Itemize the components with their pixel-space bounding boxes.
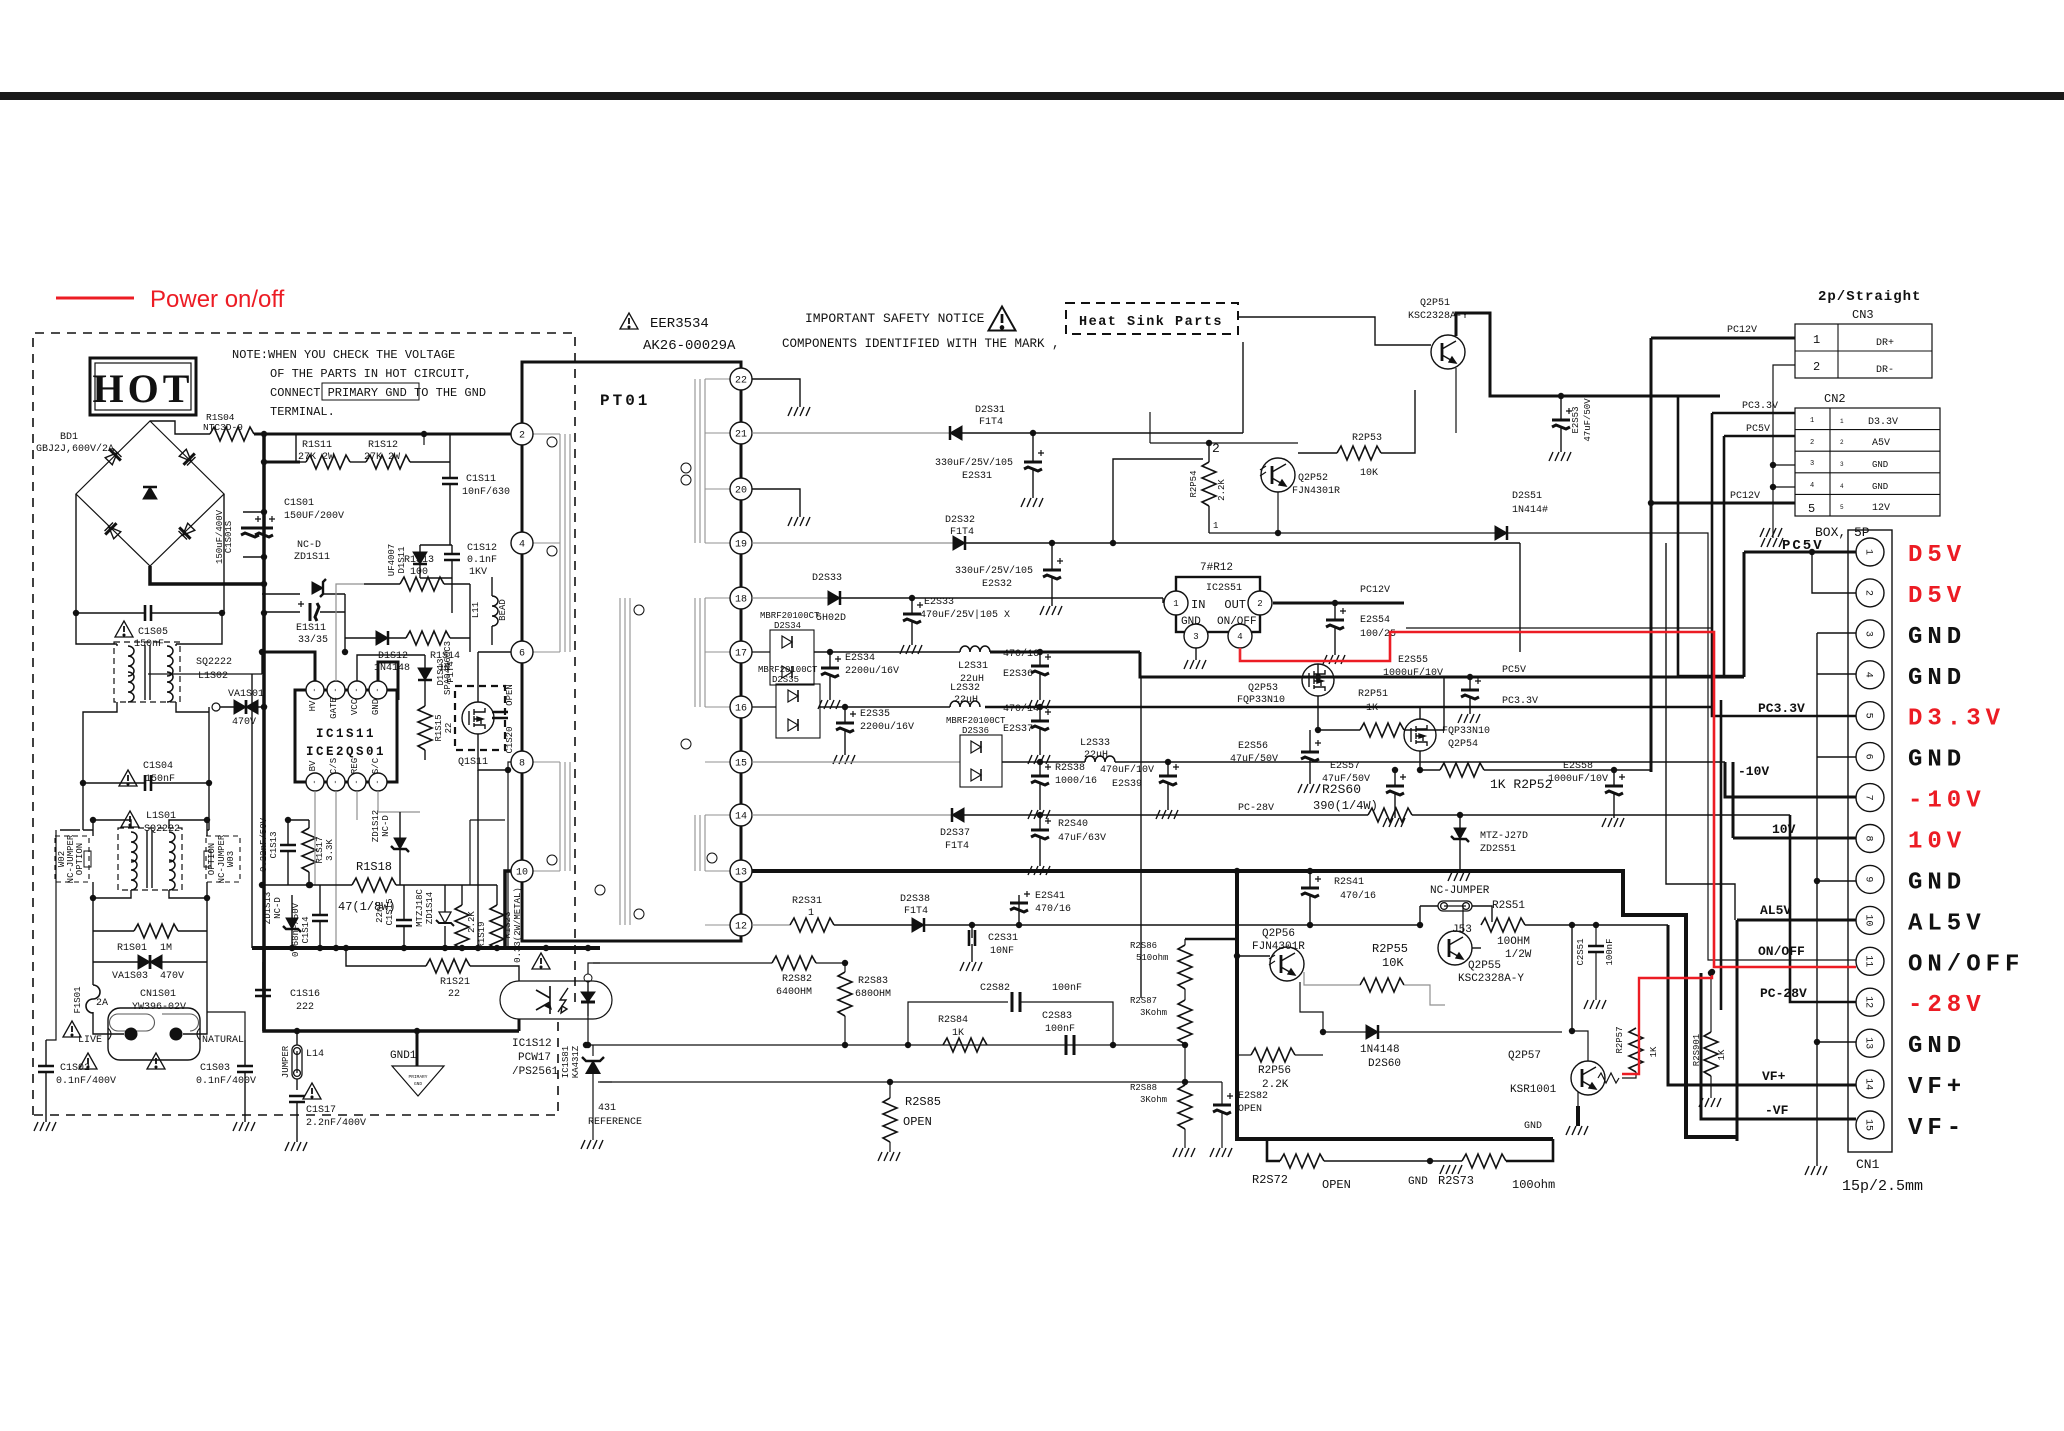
svg-text:Q2P52: Q2P52 bbox=[1298, 473, 1328, 484]
svg-text:8: 8 bbox=[519, 759, 525, 770]
svg-text:R2S73: R2S73 bbox=[1438, 1174, 1474, 1188]
CN1 pin 15 bbox=[1856, 1111, 1884, 1139]
svg-text:BV: BV bbox=[308, 760, 318, 771]
svg-text:VF+: VF+ bbox=[1908, 1074, 1966, 1101]
svg-text:47uF/50V: 47uF/50V bbox=[1322, 773, 1370, 785]
svg-text:10: 10 bbox=[516, 868, 528, 879]
svg-text:2A: 2A bbox=[96, 998, 108, 1009]
ground E2S40 bbox=[1028, 866, 1050, 875]
wire bridge top to R1S04 bbox=[150, 421, 210, 434]
svg-text:680OHM: 680OHM bbox=[855, 989, 891, 1000]
CN1 pin 6 bbox=[1856, 743, 1884, 771]
svg-text:470uF/25V|105 X: 470uF/25V|105 X bbox=[920, 609, 1010, 621]
wire HV pin bbox=[262, 652, 315, 681]
svg-text:R2S31: R2S31 bbox=[792, 896, 822, 907]
svg-text:1K: 1K bbox=[1649, 1046, 1659, 1057]
svg-text:FJN4301R: FJN4301R bbox=[1292, 486, 1340, 497]
svg-text:E2S58: E2S58 bbox=[1563, 761, 1593, 772]
svg-text:PC5V: PC5V bbox=[1502, 665, 1526, 676]
ecap E2S57 bbox=[1386, 774, 1406, 795]
wire rail21 bbox=[752, 432, 950, 434]
svg-text:PT01: PT01 bbox=[600, 392, 650, 410]
svg-text:FQP33N10: FQP33N10 bbox=[1237, 695, 1285, 706]
wire Q2P51 collector bbox=[1456, 313, 1720, 396]
CN1 pin 3 bbox=[1856, 620, 1884, 648]
svg-text:3.3K: 3.3K bbox=[325, 839, 335, 861]
ground R2S85 bbox=[878, 1152, 900, 1161]
svg-text:1000/16: 1000/16 bbox=[1055, 775, 1097, 787]
svg-text:OUT: OUT bbox=[1224, 598, 1246, 612]
CN1 pin 14 bbox=[1856, 1070, 1884, 1098]
svg-text:DR-: DR- bbox=[1876, 365, 1894, 376]
svg-text:D1S12: D1S12 bbox=[378, 651, 408, 662]
warning triangle EER bbox=[620, 313, 638, 329]
wire PC5V CN2 bbox=[1724, 435, 1795, 438]
svg-text:22: 22 bbox=[735, 376, 747, 387]
svg-text:R1S15: R1S15 bbox=[434, 714, 444, 741]
svg-text:D2S31: D2S31 bbox=[975, 405, 1005, 416]
svg-text:CONNECT PRIMARY GND TO THE GND: CONNECT PRIMARY GND TO THE GND bbox=[270, 386, 486, 400]
wire pin22 gnd bbox=[752, 379, 800, 407]
ground E2S31 bbox=[1021, 498, 1043, 507]
svg-text:YW396-02V: YW396-02V bbox=[132, 1002, 186, 1013]
coil L2S31 bbox=[960, 646, 990, 652]
ecap E2S40 bbox=[1031, 818, 1051, 839]
svg-text:E2S53: E2S53 bbox=[1571, 406, 1581, 433]
svg-text:E2S55: E2S55 bbox=[1398, 655, 1428, 666]
svg-text:ZD1S14: ZD1S14 bbox=[425, 892, 435, 924]
svg-text:D5V: D5V bbox=[1908, 542, 1966, 569]
wire R1S04 to pin2 bbox=[254, 433, 511, 436]
svg-text:EER3534: EER3534 bbox=[650, 316, 709, 332]
wire Q2P57 collector bbox=[1572, 1031, 1588, 1061]
svg-text:D2S35: D2S35 bbox=[772, 675, 799, 685]
heat sink parts dashed box bbox=[1066, 303, 1238, 334]
svg-text:390(1/4W): 390(1/4W) bbox=[1313, 799, 1378, 813]
svg-text:BD1: BD1 bbox=[60, 432, 78, 443]
ecap E2S82 bbox=[1213, 1093, 1233, 1114]
resistor R2S85 bbox=[883, 1098, 897, 1142]
svg-text:IC1S11: IC1S11 bbox=[316, 727, 376, 741]
svg-text:GND: GND bbox=[1908, 869, 1966, 896]
resistor R1S01 bbox=[134, 924, 178, 938]
ecap E2S56 bbox=[1301, 740, 1321, 761]
svg-text:1K R2P52: 1K R2P52 bbox=[1490, 777, 1552, 792]
svg-text:GND: GND bbox=[1908, 1033, 1966, 1060]
svg-text:-VF: -VF bbox=[1765, 1103, 1789, 1118]
resistor R1S11 bbox=[306, 455, 350, 469]
resistor R2P55 bbox=[1360, 978, 1404, 992]
vertical channel b bbox=[1678, 396, 1744, 676]
svg-text:100ohm: 100ohm bbox=[1512, 1178, 1555, 1192]
svg-text:A5V: A5V bbox=[1872, 438, 1890, 449]
svg-text:R2S38: R2S38 bbox=[1055, 763, 1085, 774]
wire R1S23 top bbox=[470, 884, 497, 886]
PT01 pin 12 bbox=[730, 914, 752, 936]
svg-text:F1T4: F1T4 bbox=[904, 906, 928, 917]
wire PC3.3V CN2 bbox=[1712, 412, 1795, 415]
CN1 pin 5 bbox=[1856, 702, 1884, 730]
svg-text:D2S34: D2S34 bbox=[774, 621, 801, 631]
capacitor C1S14 bbox=[312, 915, 328, 921]
svg-text:1: 1 bbox=[808, 908, 814, 919]
PT01 pin 19 bbox=[730, 532, 752, 554]
wire x1520 down bbox=[1519, 543, 1521, 652]
wire x470 886 bbox=[470, 820, 505, 885]
coil L2S33 bbox=[1085, 756, 1115, 762]
svg-text:PC3.3V: PC3.3V bbox=[1742, 401, 1778, 412]
svg-text:-: - bbox=[372, 688, 381, 693]
ground IC2S51 bbox=[1195, 648, 1197, 660]
svg-text:C1S01S: C1S01S bbox=[224, 521, 234, 553]
svg-text:640OHM: 640OHM bbox=[776, 987, 812, 998]
resistor R2S72 bbox=[1280, 1154, 1324, 1168]
svg-text:3: 3 bbox=[1810, 460, 1814, 468]
svg-text:21: 21 bbox=[735, 430, 747, 441]
ground Q2P57 bbox=[1566, 1126, 1588, 1135]
svg-text:2.2K: 2.2K bbox=[1262, 1079, 1289, 1091]
diode D2S33 bbox=[828, 591, 840, 605]
wire Q2P56 emitter path bbox=[1300, 982, 1323, 1032]
svg-text:-: - bbox=[330, 780, 339, 785]
junction at 264,434 bbox=[261, 431, 267, 437]
svg-text:C1S04: C1S04 bbox=[143, 761, 173, 772]
resistor R2P53 bbox=[1337, 446, 1381, 460]
CN1 pin 11 bbox=[1856, 947, 1884, 975]
junction E2S31 bbox=[1030, 430, 1036, 436]
capacitor C1S11 bbox=[442, 478, 458, 484]
capacitor C1S12 bbox=[444, 554, 460, 560]
svg-text:NC-JUMPER: NC-JUMPER bbox=[1430, 885, 1490, 897]
svg-text:C/S: C/S bbox=[329, 758, 339, 774]
svg-text:-: - bbox=[330, 688, 339, 693]
svg-text:R2P51: R2P51 bbox=[1358, 689, 1388, 700]
resistor R2S82 bbox=[772, 956, 816, 970]
svg-text:R1S17: R1S17 bbox=[315, 836, 325, 863]
mosfet Q2P54 bbox=[1404, 719, 1436, 751]
svg-text:D2S37: D2S37 bbox=[940, 828, 970, 839]
svg-text:1/2W: 1/2W bbox=[1505, 949, 1532, 961]
resistor R1S21 bbox=[426, 959, 470, 973]
svg-text:E2S82: E2S82 bbox=[1238, 1091, 1268, 1102]
svg-text:-: - bbox=[309, 780, 318, 785]
wire fb y963 bbox=[593, 962, 772, 964]
diode D2S32 bbox=[953, 536, 965, 550]
capacitor C1S01S pair bbox=[241, 516, 261, 537]
svg-text:OPEN: OPEN bbox=[903, 1115, 932, 1129]
wire D1S11 C1S12 join bbox=[420, 545, 452, 613]
transistor Q2P51 bbox=[1431, 335, 1465, 369]
svg-text:18: 18 bbox=[735, 595, 747, 606]
ground E2S55 bbox=[1458, 714, 1480, 723]
svg-text:VA1S01: VA1S01 bbox=[228, 689, 264, 700]
PT01 pin 8 bbox=[511, 751, 533, 773]
svg-text:12: 12 bbox=[735, 922, 747, 933]
svg-text:1: 1 bbox=[1173, 599, 1178, 609]
PT01 right edge heavy bbox=[740, 362, 743, 941]
svg-text:330uF/25V/105: 330uF/25V/105 bbox=[955, 565, 1033, 577]
svg-text:SQ2222: SQ2222 bbox=[196, 657, 232, 668]
svg-text:GBJ2J,600V/2A: GBJ2J,600V/2A bbox=[36, 443, 114, 455]
wire pin13 tap bbox=[1817, 1041, 1856, 1043]
wire Q1S11 to bus bbox=[477, 770, 479, 948]
IC1S11 pins top bbox=[306, 681, 324, 699]
svg-text:PC5V: PC5V bbox=[1746, 424, 1770, 435]
wire pin9 tap bbox=[1817, 880, 1856, 882]
ground E2S36 bbox=[1028, 700, 1050, 709]
svg-text:KSC2328A-Y: KSC2328A-Y bbox=[1458, 973, 1524, 985]
resistor R1S12 bbox=[366, 455, 410, 469]
svg-text:20: 20 bbox=[735, 486, 747, 497]
jumper J53 bbox=[1438, 901, 1472, 911]
CN2 table bbox=[1795, 408, 1940, 516]
svg-text:BEAD: BEAD bbox=[498, 599, 508, 621]
svg-text:10V: 10V bbox=[1908, 829, 1966, 856]
wire x207 drop bbox=[83, 783, 209, 830]
wire CN2 pins34 bbox=[1773, 465, 1795, 487]
svg-text:HV: HV bbox=[308, 700, 318, 711]
junction at 424,434 bbox=[421, 431, 427, 437]
svg-text:REFERENCE: REFERENCE bbox=[588, 1117, 642, 1128]
svg-text:R2S51: R2S51 bbox=[1492, 900, 1525, 912]
capacitor C1S05 bbox=[76, 612, 222, 614]
resistor R2S83 bbox=[838, 972, 852, 1016]
wire pin20 gnd bbox=[752, 489, 800, 517]
IC2S51 pin3 bbox=[1184, 624, 1208, 648]
ground C1S17 bbox=[285, 1142, 307, 1151]
resistor R2S86 bbox=[1178, 945, 1192, 989]
ground E2S57 bbox=[1383, 818, 1405, 827]
wire pin10 drop bbox=[505, 871, 511, 948]
wire PC-28V pin12 bbox=[1790, 815, 1856, 1002]
wire Q2P55 out bbox=[1472, 947, 1481, 949]
svg-text:0.1nF/400V: 0.1nF/400V bbox=[56, 1075, 116, 1087]
svg-text:10: 10 bbox=[1863, 914, 1874, 926]
svg-text:OPTION: OPTION bbox=[207, 843, 217, 875]
ground CN3 bbox=[1761, 538, 1783, 547]
shunt IC1S81 bbox=[588, 1016, 593, 1056]
primary gnd triangle bbox=[392, 1066, 444, 1096]
label L1S01 bbox=[121, 811, 139, 827]
cap C2S82 bridge bbox=[908, 1002, 1113, 1045]
PT01 left edge heavy bbox=[521, 362, 524, 941]
capacitor C1S15 bbox=[396, 920, 412, 926]
svg-text:1: 1 bbox=[1840, 418, 1844, 425]
PT01 pin 14 bbox=[730, 804, 752, 826]
svg-text:PC12V: PC12V bbox=[1727, 325, 1757, 336]
svg-text:VA1S03: VA1S03 bbox=[112, 971, 148, 982]
svg-text:NOTE:WHEN YOU CHECK THE VOLTAG: NOTE:WHEN YOU CHECK THE VOLTAGE bbox=[232, 348, 455, 362]
diode D2S60 bbox=[1366, 1025, 1378, 1039]
svg-text:1N4148: 1N4148 bbox=[1360, 1044, 1400, 1056]
svg-text:10V: 10V bbox=[1772, 822, 1796, 837]
junction 264 584 bbox=[261, 581, 267, 587]
wire L1S02 top bbox=[76, 613, 222, 646]
svg-text:VCC: VCC bbox=[350, 698, 360, 715]
GND bus vertical bbox=[1816, 633, 1818, 1166]
svg-text:IC1S12: IC1S12 bbox=[512, 1038, 552, 1050]
capacitor C1S03 bbox=[237, 1066, 253, 1072]
ecap E2S34 bbox=[821, 656, 841, 677]
IC2S51 box bbox=[1176, 577, 1260, 632]
transformer L1S01 bbox=[118, 828, 182, 890]
option box W02 bbox=[55, 836, 89, 882]
wire rail17 bbox=[752, 651, 770, 653]
vertical channel c bbox=[1720, 700, 1723, 1010]
base resistor Q2P57 bbox=[1598, 1073, 1619, 1083]
PT01 pin 16 bbox=[730, 696, 752, 718]
svg-text:GND: GND bbox=[1181, 616, 1201, 628]
ground GND bus bbox=[1805, 1166, 1827, 1175]
svg-text:3: 3 bbox=[1193, 632, 1198, 642]
svg-text:F1T4: F1T4 bbox=[945, 841, 969, 852]
cap C2S31 bbox=[969, 930, 975, 946]
wire rail16 bbox=[752, 706, 776, 708]
ground C1S03 bbox=[233, 1122, 255, 1131]
svg-text:R1S12: R1S12 bbox=[368, 440, 398, 451]
ground E2S34 bbox=[818, 700, 840, 709]
svg-text:510ohm: 510ohm bbox=[1136, 953, 1168, 963]
svg-text:D2S38: D2S38 bbox=[900, 894, 930, 905]
svg-text:C1S16: C1S16 bbox=[290, 989, 320, 1000]
varistor VA1S03 bbox=[138, 955, 150, 969]
svg-text:470/14: 470/14 bbox=[1003, 703, 1039, 715]
wire Q2P57 emitter bbox=[1577, 1092, 1579, 1106]
wire S/C drop bbox=[357, 791, 420, 820]
vertical PC5V x1724 bbox=[1723, 436, 1726, 677]
wire bridge bottom heavy bbox=[150, 566, 264, 584]
svg-text:MTZ-J27D: MTZ-J27D bbox=[1480, 831, 1528, 842]
cap C2S83 bbox=[1066, 1035, 1074, 1055]
ground C1S02 bbox=[34, 1122, 56, 1131]
resistor R2S73 bbox=[1462, 1154, 1506, 1168]
svg-text:DR+: DR+ bbox=[1876, 338, 1894, 349]
svg-text:47uF/63V: 47uF/63V bbox=[1058, 832, 1106, 844]
svg-text:LIVE: LIVE bbox=[78, 1035, 102, 1046]
capacitor C1S17 bbox=[289, 1096, 305, 1102]
svg-text:2.2K: 2.2K bbox=[467, 911, 477, 933]
svg-text:PC-28V: PC-28V bbox=[1760, 986, 1807, 1001]
junction E2S53 bbox=[1558, 393, 1564, 399]
svg-text:CN1: CN1 bbox=[1856, 1157, 1880, 1172]
svg-text:47uF/50V: 47uF/50V bbox=[1583, 398, 1593, 442]
svg-text:1KV: 1KV bbox=[469, 567, 487, 578]
svg-text:NC-D: NC-D bbox=[297, 540, 321, 551]
ecap E2S32 bbox=[1043, 558, 1063, 579]
wire y=462 row bbox=[264, 461, 300, 464]
svg-text:2.2K: 2.2K bbox=[1217, 479, 1227, 501]
transistor Q2P56 bbox=[1270, 947, 1304, 981]
wire -10V pin7 bbox=[1725, 762, 1856, 797]
svg-text:13: 13 bbox=[735, 868, 747, 879]
svg-text:2p/Straight: 2p/Straight bbox=[1818, 289, 1921, 305]
PT01 pin 13 bbox=[730, 860, 752, 882]
svg-text:-: - bbox=[351, 688, 360, 693]
svg-text:L2S33: L2S33 bbox=[1080, 738, 1110, 749]
ground bottom mid bbox=[1440, 1165, 1462, 1174]
wire OUT PC12V bbox=[1273, 602, 1404, 605]
wire Q2P55 col bbox=[1462, 906, 1464, 932]
svg-text:3: 3 bbox=[1840, 461, 1844, 468]
svg-text:150uF/400V: 150uF/400V bbox=[215, 509, 225, 564]
ground E2S82 bbox=[1210, 1148, 1232, 1157]
rect diode D2S35 bbox=[776, 684, 820, 738]
svg-text:10NF: 10NF bbox=[990, 946, 1014, 957]
svg-text:-28V: -28V bbox=[1908, 992, 1986, 1019]
cap E2S37 bbox=[1031, 709, 1051, 730]
vertical x=264 bus bbox=[262, 434, 266, 584]
svg-text:470/16: 470/16 bbox=[1003, 648, 1039, 660]
svg-text:470/16: 470/16 bbox=[1035, 903, 1071, 915]
svg-text:PC5V: PC5V bbox=[1782, 538, 1824, 554]
HOT box bbox=[90, 358, 196, 415]
svg-text:NC-D: NC-D bbox=[381, 815, 391, 837]
svg-text:22: 22 bbox=[444, 723, 454, 734]
svg-text:GND: GND bbox=[414, 1081, 422, 1087]
svg-text:COMPONENTS IDENTIFIED WITH THE: COMPONENTS IDENTIFIED WITH THE MARK , bbox=[782, 337, 1060, 351]
svg-text:12: 12 bbox=[1863, 996, 1874, 1008]
svg-text:TERMINAL.: TERMINAL. bbox=[270, 405, 335, 419]
resistor R2S901 bbox=[1704, 1032, 1718, 1076]
svg-text:L11: L11 bbox=[471, 602, 481, 618]
coil L2S32 bbox=[950, 701, 980, 707]
svg-text:R2P56: R2P56 bbox=[1258, 1065, 1291, 1077]
PT01 right winding bars bbox=[695, 379, 705, 543]
CN1 pin 7 bbox=[1856, 784, 1884, 812]
wire VF- pin15 bbox=[1701, 973, 1856, 1119]
ecap E1S11 bbox=[298, 601, 319, 621]
PT01 inner winding bar bbox=[620, 598, 630, 925]
resistor R2P51 bbox=[1360, 723, 1404, 737]
svg-text:13: 13 bbox=[1863, 1037, 1874, 1049]
PT01 pin 2 bbox=[511, 423, 533, 445]
svg-text:ON/OFF: ON/OFF bbox=[1217, 616, 1257, 628]
svg-text:10OHM: 10OHM bbox=[1497, 936, 1530, 948]
svg-text:Power on/off: Power on/off bbox=[150, 286, 285, 313]
svg-text:2200u/16V: 2200u/16V bbox=[845, 665, 899, 677]
svg-text:470V: 470V bbox=[160, 971, 184, 982]
PT01 pin 21 bbox=[730, 422, 752, 444]
svg-text:1K: 1K bbox=[952, 1028, 964, 1039]
diode D1S13 bbox=[418, 668, 432, 680]
wire rail12 bbox=[752, 924, 790, 926]
wire CN3 pin2 bbox=[1773, 365, 1795, 538]
svg-text:R2S40: R2S40 bbox=[1058, 819, 1088, 830]
ecap E2S54 bbox=[1326, 608, 1346, 629]
svg-text:R2P53: R2P53 bbox=[1352, 433, 1382, 444]
svg-text:HOT: HOT bbox=[93, 366, 194, 411]
svg-text:ON/OFF: ON/OFF bbox=[1758, 944, 1805, 959]
svg-text:9: 9 bbox=[1863, 876, 1874, 882]
svg-text:VF-: VF- bbox=[1908, 1115, 1966, 1142]
resistor R2S60 bbox=[1368, 808, 1412, 822]
svg-text:E2S36: E2S36 bbox=[1003, 669, 1033, 680]
svg-text:IN: IN bbox=[1191, 598, 1205, 612]
svg-text:C2S51: C2S51 bbox=[1576, 938, 1586, 965]
svg-text:Q2P53: Q2P53 bbox=[1248, 683, 1278, 694]
wire pin2 jog bbox=[1812, 552, 1856, 593]
svg-text:R2S72: R2S72 bbox=[1252, 1173, 1288, 1187]
svg-text:7#R12: 7#R12 bbox=[1200, 562, 1233, 574]
svg-text:R2S83: R2S83 bbox=[858, 976, 888, 987]
CN1 pin 12 bbox=[1856, 988, 1884, 1016]
vertical PC12V x1651 bbox=[1650, 338, 1653, 772]
svg-text:PRIMARY: PRIMARY bbox=[409, 1074, 428, 1080]
capacitor C1S02 bbox=[38, 1066, 54, 1072]
svg-text:ZD2S51: ZD2S51 bbox=[1480, 844, 1516, 855]
svg-text:W03: W03 bbox=[226, 851, 236, 867]
svg-text:R2S88: R2S88 bbox=[1130, 1083, 1157, 1093]
